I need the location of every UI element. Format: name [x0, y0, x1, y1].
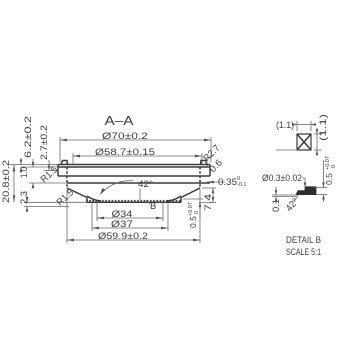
svg-text:-0.1: -0.1 [237, 182, 246, 188]
svg-text:0.35: 0.35 [218, 177, 237, 188]
svg-text:0: 0 [194, 211, 200, 214]
svg-text:0: 0 [331, 165, 337, 168]
svg-text:Ø58.7±0.15: Ø58.7±0.15 [95, 147, 155, 158]
svg-text:6.2±0.2: 6.2±0.2 [23, 116, 34, 158]
svg-text:Ø59.9±0.2: Ø59.9±0.2 [98, 231, 148, 242]
svg-text:0.1: 0.1 [271, 199, 282, 212]
svg-text:7.4: 7.4 [203, 194, 214, 211]
svg-text:(1.1): (1.1) [276, 120, 294, 131]
svg-text:B: B [150, 201, 156, 212]
svg-text:(1.1): (1.1) [318, 114, 329, 141]
svg-text:SCALE 5:1: SCALE 5:1 [286, 247, 321, 258]
svg-text:Ø70±0.2: Ø70±0.2 [102, 131, 148, 142]
svg-text:0.5: 0.5 [324, 173, 334, 185]
svg-text:Ø37: Ø37 [111, 219, 133, 230]
svg-text:A–A: A–A [105, 113, 134, 128]
svg-text:DETAIL B: DETAIL B [286, 235, 321, 246]
svg-text:1.0: 1.0 [19, 167, 30, 178]
svg-text:2.7±0.2: 2.7±0.2 [39, 125, 50, 160]
svg-text:20.8±0.2: 20.8±0.2 [1, 160, 12, 203]
svg-text:0.5: 0.5 [188, 216, 198, 228]
svg-text:Ø0.3±0.02: Ø0.3±0.02 [262, 173, 302, 184]
svg-text:2.3: 2.3 [19, 191, 30, 204]
svg-text:42°: 42° [138, 179, 153, 190]
